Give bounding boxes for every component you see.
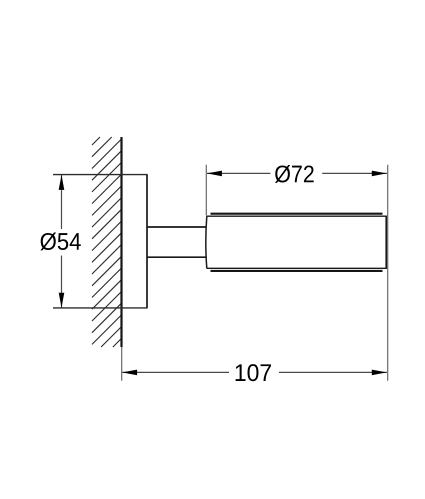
dimension line Ø72 <box>207 172 387 174</box>
extension line left of 107 (below wall) <box>121 347 123 381</box>
neck bottom line <box>147 256 207 258</box>
extension line left of Ø72 <box>205 165 207 216</box>
arrow Ø54 up <box>59 175 65 190</box>
cylinder outer top line <box>211 213 383 215</box>
wall hatching <box>92 137 122 347</box>
cylinder left face arc <box>206 216 207 268</box>
arrow 107 right <box>372 370 387 376</box>
neck top line <box>147 226 207 228</box>
extension line bottom of flange (Ø54 lower) <box>53 307 148 309</box>
arrow 107 left <box>122 370 137 376</box>
dimension line 107 <box>122 371 387 373</box>
cylinder outer bottom line <box>211 270 383 272</box>
label Ø54 <box>40 233 80 251</box>
extension line right (shared by Ø72 and 107) <box>387 165 389 381</box>
label 107 <box>236 364 271 381</box>
extension line top of flange (Ø54 upper) <box>53 174 148 176</box>
dimension line Ø54 <box>61 175 63 308</box>
cylinder right end face <box>385 216 387 269</box>
arrow Ø72 left <box>207 171 222 177</box>
arrow Ø72 right <box>372 171 387 177</box>
mounting flange right edge <box>146 175 148 308</box>
label Ø72 <box>275 165 314 183</box>
cylinder chamfer top line <box>207 215 387 217</box>
cylinder chamfer bottom line <box>207 267 387 269</box>
wall face line <box>120 137 122 347</box>
arrow Ø54 down <box>59 293 65 308</box>
